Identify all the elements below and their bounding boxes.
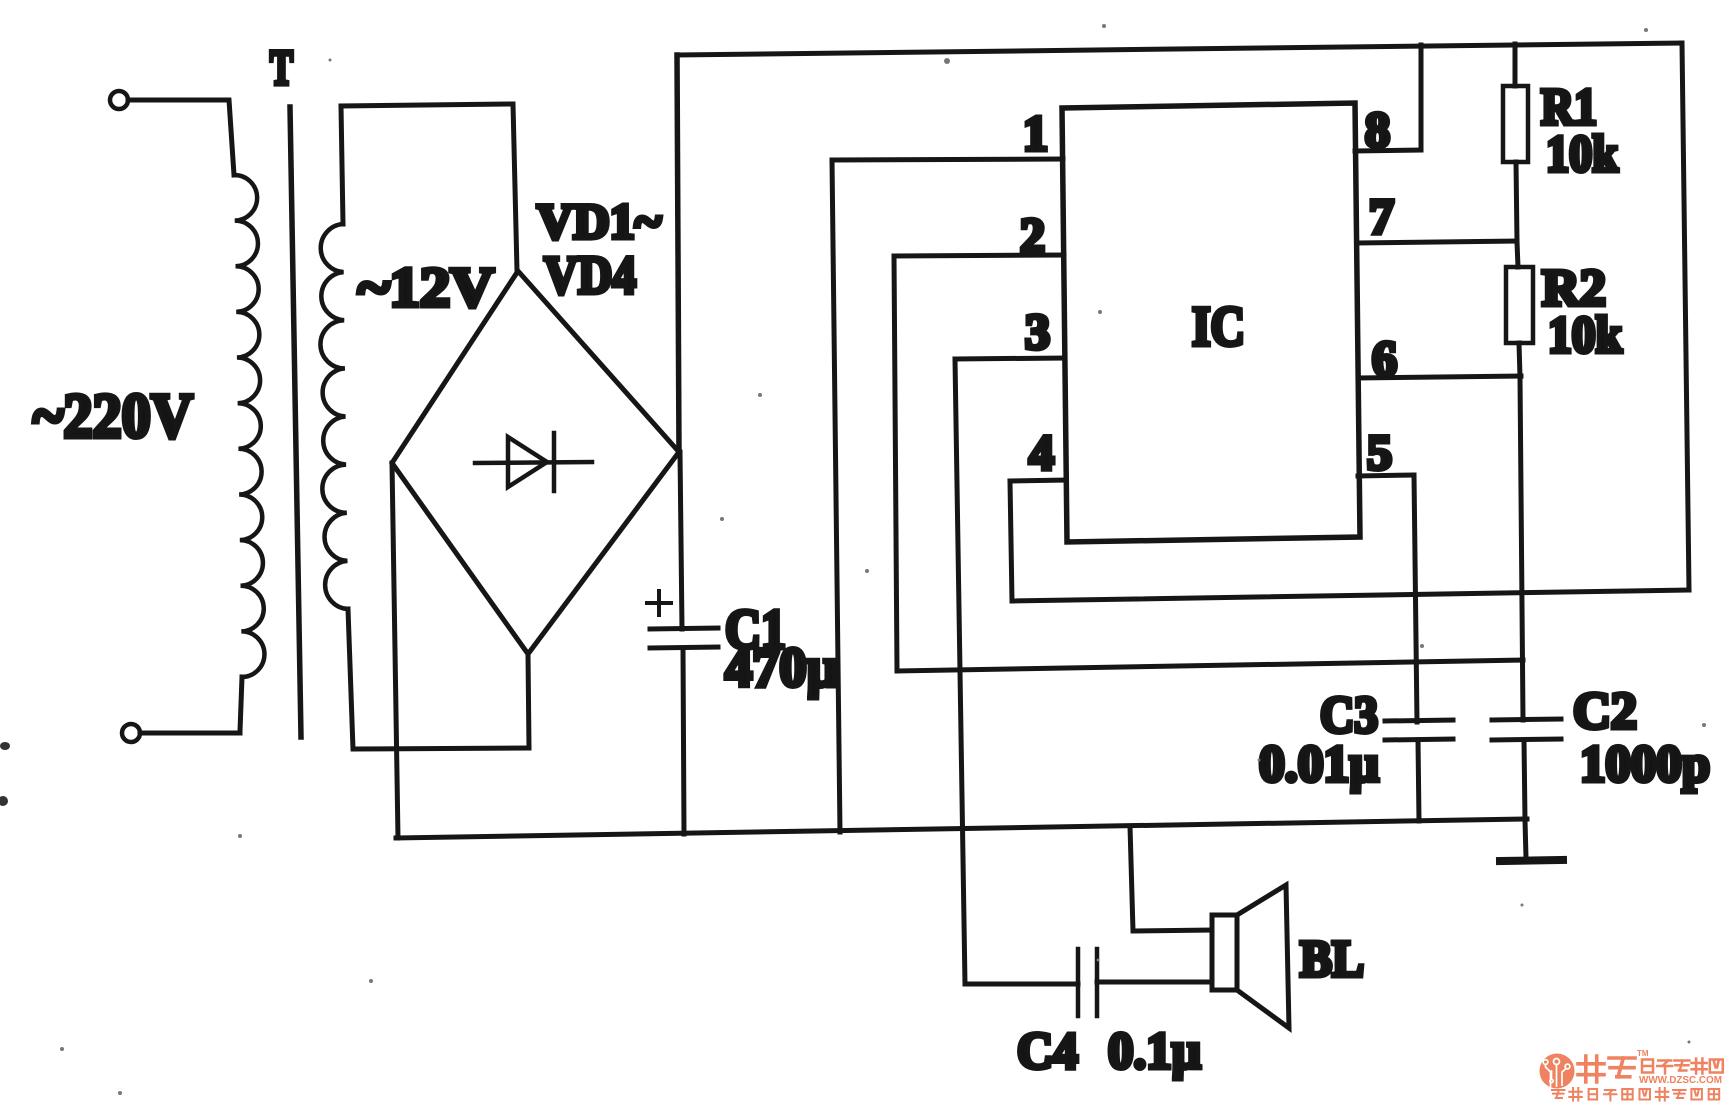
capacitor C1 [680, 452, 682, 629]
watermark logo circle [1540, 1054, 1575, 1089]
svg-text:~220V: ~220V [33, 381, 193, 451]
bridge rectifier VD1~VD4 [392, 271, 679, 654]
transformer T core [290, 107, 301, 737]
svg-text:1000p: 1000p [1580, 736, 1710, 793]
svg-text:0.1µ: 0.1µ [1108, 1023, 1201, 1080]
capacitor C3 [1385, 720, 1453, 721]
speaker BL [1212, 915, 1237, 990]
pin 7 wire [1357, 241, 1517, 243]
svg-text:TM: TM [1637, 1049, 1649, 1058]
wire pin2 vertical [894, 256, 897, 671]
svg-text:VD1~: VD1~ [537, 193, 661, 249]
wire V+ left vertical [677, 55, 679, 452]
terminal J1 top [110, 91, 128, 109]
pin 1 stub [832, 159, 1063, 160]
wire secondary top to bridge [341, 104, 517, 271]
svg-text:~12V: ~12V [358, 257, 494, 319]
svg-text:10k: 10k [1546, 126, 1618, 183]
wire pin3 vertical [955, 359, 965, 984]
resistor R1 [1513, 44, 1518, 86]
watermark glyphs 电子市场网 [1642, 1059, 1723, 1074]
svg-text:470µ: 470µ [725, 637, 838, 699]
pin 6 wire [1358, 376, 1521, 378]
transformer T secondary winding [320, 224, 348, 609]
svg-text:WWW.DZSC.COM: WWW.DZSC.COM [1639, 1074, 1722, 1086]
transformer T primary winding [234, 175, 264, 677]
svg-text:BL: BL [1300, 931, 1364, 988]
wire pin4 stub [1010, 480, 1066, 481]
svg-text:T: T [270, 39, 293, 95]
wire V+ top bus [677, 43, 1682, 55]
wire bus down to speaker [1130, 826, 1212, 931]
wire pin4 return [1012, 590, 1689, 601]
svg-text:C2: C2 [1573, 683, 1637, 740]
pin 8 stub [1355, 150, 1421, 151]
svg-text:3: 3 [1025, 303, 1050, 359]
wire R column down to C2 [1520, 377, 1523, 720]
capacitor C4 [965, 982, 1078, 987]
wire bridge left vertex down to bus [392, 463, 398, 838]
watermark brand glyphs 维库 [1578, 1056, 1635, 1082]
svg-text:0.01µ: 0.01µ [1259, 736, 1379, 793]
svg-text:1: 1 [1023, 105, 1048, 161]
wire [140, 677, 242, 733]
wire pin8 vertical [1419, 45, 1424, 150]
pin 3 stub [955, 358, 1065, 359]
svg-text:7: 7 [1369, 188, 1394, 244]
watermark slogan glyphs [1552, 1088, 1719, 1101]
terminal J1 bottom [122, 724, 140, 742]
wire bridge bottom vertex down [528, 654, 529, 748]
svg-text:2: 2 [1020, 207, 1045, 263]
resistor R2 [1517, 242, 1518, 267]
capacitor C2 [1492, 719, 1561, 720]
wire pin5 vertical to C3 [1414, 475, 1417, 722]
C1 plus sign [647, 591, 671, 615]
svg-text:C4: C4 [1017, 1023, 1078, 1080]
svg-text:8: 8 [1365, 101, 1390, 157]
wire [128, 100, 234, 175]
wire pin4 vertical [1010, 481, 1012, 601]
wire pin2 return [897, 660, 1523, 671]
ground [1525, 820, 1526, 858]
wire V+ right edge [1682, 43, 1689, 590]
svg-text:10k: 10k [1548, 307, 1622, 364]
op-amp IC U1 box [1062, 103, 1360, 542]
svg-text:VD4: VD4 [544, 245, 636, 305]
pin 5 stub [1358, 475, 1414, 476]
svg-text:5: 5 [1367, 424, 1392, 480]
svg-text:IC: IC [1192, 296, 1245, 358]
pin 2 stub [894, 255, 1064, 256]
svg-text:4: 4 [1029, 424, 1054, 480]
wire pin1 vertical to bus [832, 160, 840, 832]
svg-text:6: 6 [1372, 330, 1397, 386]
wire secondary bottom to bridge [348, 609, 529, 749]
diode symbol inside bridge [475, 433, 592, 491]
wire ground bus bottom [396, 819, 1527, 838]
